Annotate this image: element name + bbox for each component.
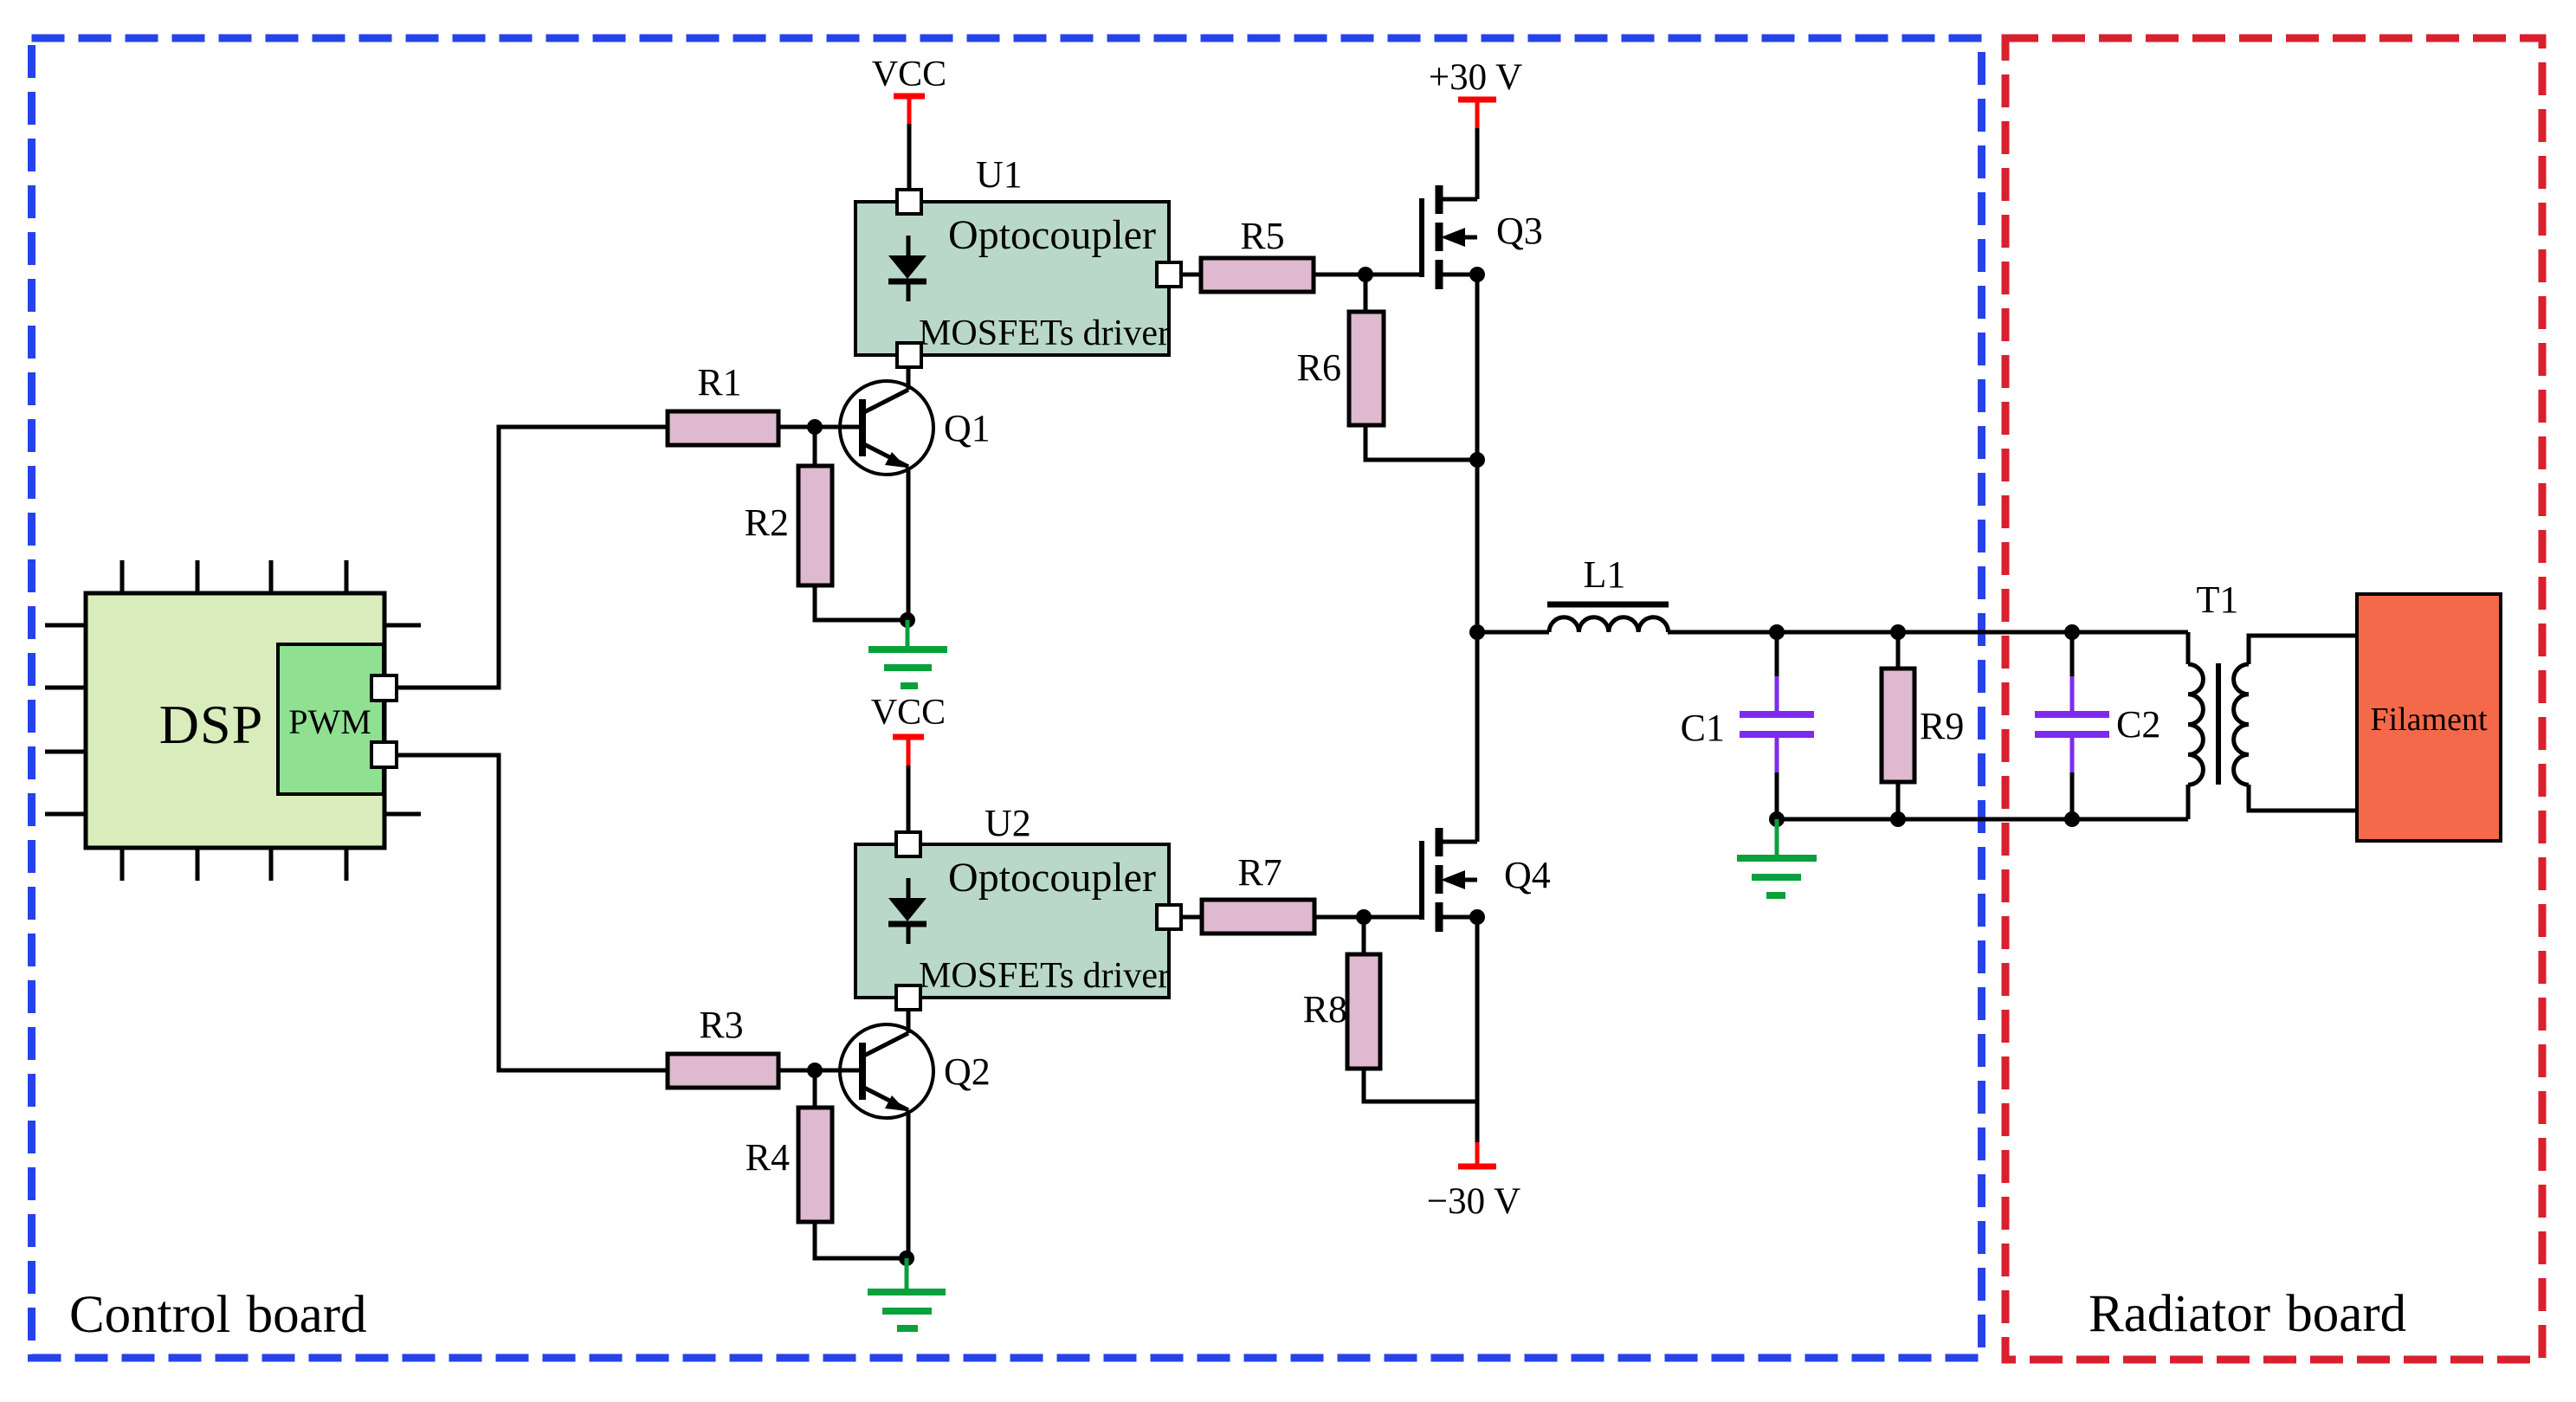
U1 pin bottom [897, 343, 921, 367]
node Q3 source [1469, 267, 1485, 282]
T1 secondary [2234, 664, 2249, 785]
U2 pin right [1157, 905, 1181, 929]
svg-text:R3: R3 [699, 1004, 743, 1046]
wire U2 to R7 [1181, 915, 1202, 920]
svg-text:Q1: Q1 [944, 407, 991, 449]
node R9 top [1890, 624, 1906, 640]
node Q1 emitter [900, 612, 915, 628]
resistor R3 [668, 1054, 778, 1088]
node R9 bottom [1890, 811, 1906, 827]
wire R6 bottom to rail [1365, 425, 1477, 460]
-30V terminal [1475, 1142, 1480, 1166]
wire R3 to Q2 base [778, 1069, 862, 1073]
DSP pins [45, 560, 421, 881]
svg-text:R8: R8 [1303, 988, 1347, 1031]
svg-text:Optocoupler: Optocoupler [948, 855, 1156, 901]
wire U1 to R5 [1181, 273, 1201, 277]
svg-text:Optocoupler: Optocoupler [948, 212, 1156, 258]
wire rail L1 node to Q4 [1475, 632, 1480, 842]
ground (Q2) [868, 1258, 946, 1328]
svg-text:C2: C2 [2116, 703, 2160, 746]
svg-text:R2: R2 [745, 501, 789, 544]
bottom wire [1777, 817, 2188, 822]
wire R7 to Q4 gate [1314, 915, 1422, 920]
svg-text:+30 V: +30 V [1429, 57, 1522, 98]
PWM pin 1 [371, 675, 397, 701]
svg-text:Q3: Q3 [1496, 210, 1543, 252]
svg-text:VCC: VCC [871, 693, 946, 733]
radiator board dashed border [2005, 38, 2542, 1360]
node R7/R8 [1356, 909, 1372, 925]
Filament block [2357, 594, 2501, 841]
wire R5 to Q3 gate [1314, 273, 1422, 277]
svg-text:R4: R4 [746, 1136, 790, 1179]
wire PWM1 to R1 [397, 427, 668, 688]
wire L1 to C2 region [1668, 630, 2188, 635]
svg-text:PWM: PWM [288, 702, 371, 741]
U2 pin bottom [896, 985, 920, 1010]
wire R1 to Q1 base [778, 425, 862, 430]
resistor R4 [813, 1070, 817, 1108]
resistor R9 [1896, 632, 1901, 669]
svg-text:MOSFETs driver: MOSFETs driver [919, 313, 1170, 353]
node R6/rail [1469, 452, 1485, 468]
transistor Q4 (MOSFET) [1422, 828, 1477, 932]
wire R4 bottom to emitter node [815, 1222, 907, 1258]
resistor R1 [668, 411, 778, 445]
wire R2 bottom to emitter node [815, 585, 907, 620]
wire PWM2 to R3 [397, 755, 668, 1070]
resistor R7 [1202, 900, 1314, 934]
capacitor C2 [2070, 632, 2075, 676]
node R1/R2 [807, 419, 823, 435]
optocoupler U1 [855, 202, 1169, 355]
resistor R5 [1201, 258, 1314, 292]
node L1 tap [1469, 624, 1485, 640]
svg-text:R5: R5 [1240, 215, 1284, 257]
transistor Q2 [840, 1010, 933, 1258]
node R3/R4 [807, 1063, 823, 1078]
diode in U2 [907, 878, 911, 899]
ground (Q1) [868, 620, 947, 686]
PWM block [278, 644, 384, 794]
node Q2 emitter [899, 1250, 914, 1266]
svg-text:U2: U2 [985, 802, 1031, 844]
node C2 bottom [2064, 811, 2080, 827]
svg-text:Q4: Q4 [1504, 854, 1551, 896]
optocoupler U2 [855, 844, 1169, 998]
svg-text:Filament: Filament [2370, 701, 2488, 738]
node C2 top [2064, 624, 2080, 640]
svg-text:R7: R7 [1237, 851, 1282, 894]
svg-text:C1: C1 [1681, 707, 1725, 749]
control board dashed border [32, 38, 1982, 1358]
resistor R6 [1364, 275, 1368, 312]
svg-text:VCC: VCC [872, 55, 946, 94]
svg-text:DSP: DSP [159, 694, 263, 755]
PWM pin 2 [371, 742, 397, 767]
transistor Q1 [840, 367, 933, 620]
svg-text:R1: R1 [697, 361, 741, 404]
svg-text:R6: R6 [1297, 346, 1341, 389]
U2 pin top [896, 832, 920, 856]
svg-text:Radiator board: Radiator board [2089, 1285, 2406, 1343]
node Q4 source [1469, 909, 1485, 925]
resistor R2 [813, 427, 817, 466]
svg-text:R9: R9 [1920, 705, 1964, 747]
wire rail Q3 source to L1 node [1475, 275, 1480, 632]
svg-text:Q2: Q2 [944, 1050, 991, 1093]
svg-text:U1: U1 [976, 153, 1023, 196]
DSP block [86, 593, 384, 848]
svg-text:−30 V: −30 V [1427, 1181, 1520, 1222]
node R5/R6 [1358, 267, 1373, 282]
resistor R8 [1362, 917, 1366, 954]
svg-text:MOSFETs driver: MOSFETs driver [919, 956, 1170, 996]
diode in U1 [907, 236, 911, 256]
capacitor C1 [1775, 632, 1779, 676]
U1 pin right [1157, 262, 1181, 287]
ground (output) [1737, 819, 1817, 895]
svg-text:L1: L1 [1584, 553, 1626, 596]
wire rail Q4 source to -30V [1475, 917, 1480, 1142]
node C1 bottom [1769, 811, 1785, 827]
wire R8 bottom to rail [1364, 1069, 1477, 1102]
inductor L1 [1547, 602, 1669, 608]
U1 pin top [897, 190, 921, 214]
node C1 top [1769, 624, 1785, 640]
T1 core [2216, 663, 2221, 785]
transistor Q3 (MOSFET) [1422, 185, 1477, 289]
svg-text:Control board: Control board [69, 1286, 367, 1344]
svg-text:T1: T1 [2197, 578, 2239, 621]
